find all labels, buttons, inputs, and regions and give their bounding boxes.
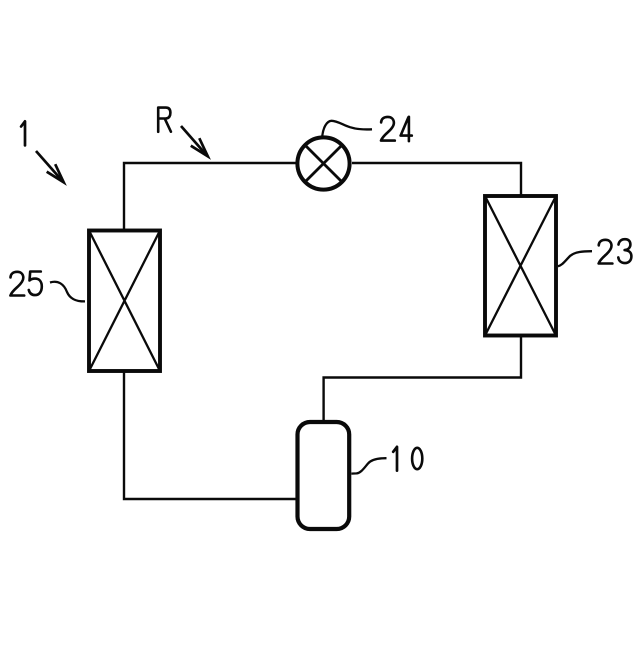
leader line for 10 (351, 458, 386, 473)
accumulator 10 (rounded rect) (298, 422, 350, 529)
label 1 (21, 121, 25, 145)
wire: top-right horizontal + down to condenser 23 (352, 163, 521, 196)
arrow for label 1 (36, 151, 64, 182)
label 25 (10, 272, 24, 296)
label 10 (393, 447, 397, 471)
expansion valve 24 (circle with X) (297, 137, 349, 189)
wire: evaporator 25 bottom down, right to accumulator 10 left (124, 371, 297, 499)
wire: condenser 23 bottom down, left, into accumulator 10 top (324, 336, 521, 423)
label 24 (381, 117, 395, 141)
wire: left vertical + top-left horizontal (124, 163, 296, 231)
heat exchanger 25 (rect with X) (89, 231, 160, 372)
arrow for label R (181, 126, 208, 156)
heat exchanger 23 (rect with X) (485, 196, 556, 336)
leader line for 23 (558, 251, 592, 266)
label 23 (599, 240, 613, 264)
leader line for 25 (50, 282, 85, 302)
label R (158, 108, 171, 132)
leader line for 24 (322, 121, 372, 136)
